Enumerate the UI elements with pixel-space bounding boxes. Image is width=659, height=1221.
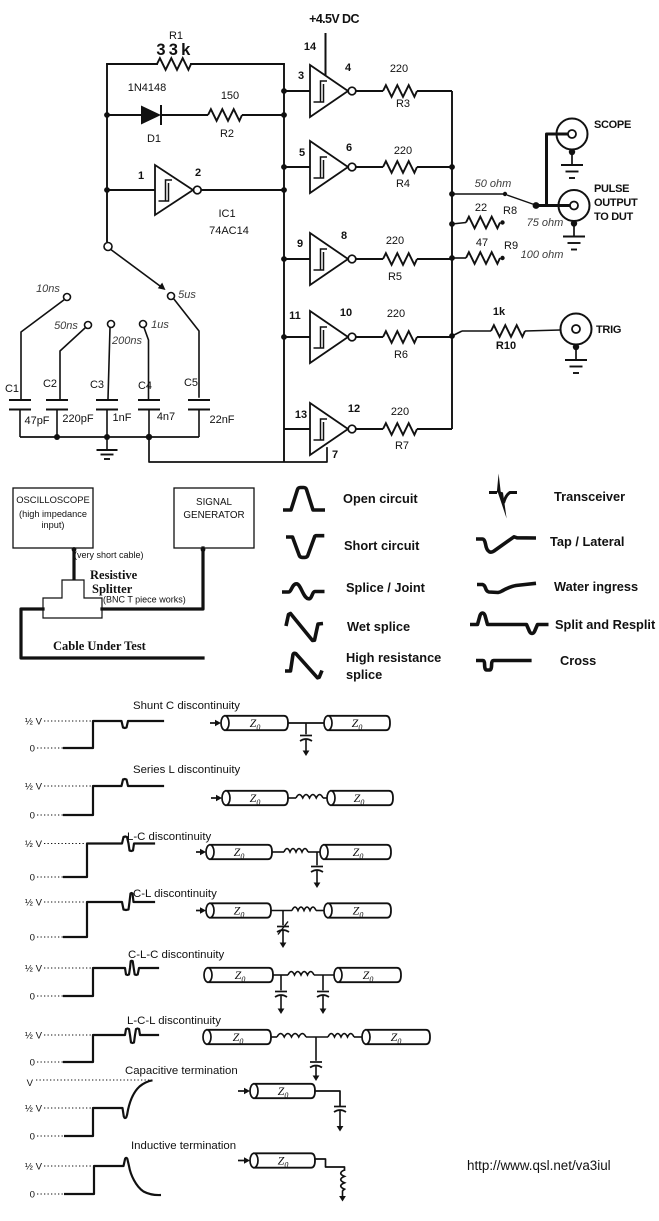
row8 termination inductor [341,1170,345,1191]
rotary switch contact 10ns [64,294,71,301]
BNC connector SCOPE [557,119,588,179]
wire contact 1us to C4 [144,328,149,400]
svg-text:4n7: 4n7 [157,411,175,423]
svg-text:SIGNAL: SIGNAL [196,497,232,508]
dotted level line half-V [44,1034,93,1036]
svg-text:Inductive termination: Inductive termination [131,1140,236,1152]
junction dot output bus y224 [449,221,455,227]
junction dot input bus gate3 [281,88,287,94]
svg-text:22nF: 22nF [209,414,234,426]
svg-text:100 ohm: 100 ohm [521,249,564,261]
junction dot output bus y258 [449,255,455,261]
row1 feed arrow [210,722,217,724]
wire gate output to R3 [356,90,383,92]
row2 series inductor [288,797,296,799]
wire input bus to gate pin 3 [284,90,310,92]
row2 feed arrow [211,797,218,799]
svg-text:(very short cable): (very short cable) [74,550,144,560]
resistor R6 [383,331,417,343]
wire contact 5us to C5 [174,299,200,398]
row4 series inductor [292,907,316,910]
row6 coax right Z0 [366,1030,430,1044]
svg-text:13: 13 [295,409,307,421]
capacitor C4 [138,399,160,401]
dotted level line half-V [44,785,93,787]
legend waveform open circuit [283,488,325,511]
rotary switch contact 5us [168,293,175,300]
svg-text:0: 0 [30,1132,35,1143]
row2 step trace with series L bump [64,779,163,815]
inverter gate IC1 pins 5/6 [310,141,356,193]
capacitor C2 [46,399,68,401]
row5 junction wire left [273,974,288,976]
svg-text:OUTPUT: OUTPUT [594,197,638,209]
dotted level line 0 [37,1193,64,1195]
svg-text:11: 11 [289,310,301,322]
svg-text:220: 220 [387,308,405,320]
svg-text:220: 220 [394,145,412,157]
svg-text:D1: D1 [147,133,161,145]
row3 series inductor [272,851,284,853]
row2 coax left Z0 [226,791,288,805]
svg-text:Cross: Cross [560,653,596,668]
row5 shunt capacitor right [322,975,324,990]
pin 14 supply wire [325,33,327,79]
BNC connector PULSE OUTPUT [559,190,590,250]
inverter gate IC1 pins 11/10 [310,311,356,363]
junction dot output bus y167 [449,164,455,170]
ground under C3 [106,437,108,450]
svg-text:R5: R5 [388,271,402,283]
svg-text:R4: R4 [396,178,410,190]
dotted level line half-V [44,1165,93,1167]
svg-text:input): input) [42,520,65,530]
row5 coax right Z0 [338,968,401,982]
svg-text:6: 6 [346,142,352,154]
wire left rail [106,64,108,242]
row4 feed arrow [196,910,202,912]
svg-text:Wet splice: Wet splice [347,619,410,634]
row5 junction wire right [314,974,334,976]
wire IC1a output to input bus [201,189,284,191]
thick wire common to SCOPE and PULSE OUT [536,204,547,207]
row3 step trace bump then dip [64,837,154,878]
legend waveform water ingress [477,583,536,592]
svg-text:GENERATOR: GENERATOR [183,510,244,521]
rotary switch contact 1us [140,321,147,328]
svg-text:splice: splice [346,667,382,682]
svg-text:(BNC T piece works): (BNC T piece works) [103,595,186,605]
svg-text:47: 47 [476,237,488,249]
svg-text:200ns: 200ns [111,335,142,347]
junction dot left rail / D1 [104,112,110,118]
wire bus to R9 [452,257,466,259]
selector common dot [533,202,540,209]
contact dot 50 ohm [503,192,507,196]
svg-text:3: 3 [298,70,304,82]
resistive splitter outline [43,580,102,618]
junction dot input bus gate11 [281,334,287,340]
thick cable signal generator to splitter [102,548,203,609]
svg-text:Capacitive termination: Capacitive termination [125,1065,238,1077]
row1 shunt capacitor to ground [305,723,307,734]
wire gate output to R5 [356,258,383,260]
wire output bus vertical [451,91,453,429]
svg-text:Split and Resplit: Split and Resplit [555,617,656,632]
wire contact 10ns to C1 [21,300,65,400]
rotary switch pole [104,243,112,251]
row7 dotted V level [36,1079,152,1081]
legend waveform high resistance splice [285,653,322,678]
wire contact 200ns to C3 [108,328,110,400]
svg-text:14: 14 [304,41,317,53]
dotted level line 0 [37,936,64,938]
wire bus to R10 [452,331,462,336]
svg-text:V: V [27,1078,34,1089]
junction dot input bus IC1a out [281,187,287,193]
svg-text:½ V: ½ V [25,839,43,850]
svg-text:50ns: 50ns [54,320,78,332]
svg-text:Short circuit: Short circuit [344,538,420,553]
row7 coax Z0 [254,1084,315,1098]
legend waveform short circuit [286,536,324,558]
svg-text:R3: R3 [396,98,410,110]
svg-text:R2: R2 [220,128,234,140]
svg-text:9: 9 [297,238,303,250]
svg-text:2: 2 [195,167,201,179]
row5 shunt capacitor left [280,975,282,990]
svg-text:0: 0 [30,992,35,1003]
row4 shunt capacitor (slashed) [282,911,284,926]
row5 series inductor [288,972,314,975]
svg-text:1N4148: 1N4148 [128,82,167,94]
junction dot input bus D1 row [281,112,287,118]
svg-text:4: 4 [345,62,352,74]
svg-text:220pF: 220pF [62,413,93,425]
junction dot input bus gate5 [281,164,287,170]
svg-text:R10: R10 [496,340,516,352]
wire contact 50ns to C2 [60,328,86,400]
wire R6 to output bus [417,336,452,338]
inverter gate IC1 pins 13/12 [310,403,356,455]
svg-text:33k: 33k [156,41,193,59]
capacitor C1 [9,399,31,401]
svg-text:L-C-L discontinuity: L-C-L discontinuity [127,1015,221,1027]
rotary switch wiper arrow [111,250,160,287]
svg-text:½ V: ½ V [25,782,43,793]
svg-text:C3: C3 [90,379,104,391]
svg-text:OSCILLOSCOPE: OSCILLOSCOPE [16,494,89,505]
selector wiper wire [507,195,534,205]
svg-text:1nF: 1nF [113,412,132,424]
dotted level line half-V [44,901,87,903]
wire input bus to gate pin 13 [284,428,310,430]
junction dot C4 bus [146,434,152,440]
BNC connector TRIG [561,314,592,374]
svg-text:220: 220 [391,406,409,418]
svg-text:½ V: ½ V [25,1031,43,1042]
wire IC1a input [107,189,155,191]
row1 coax left Z0 [225,716,288,730]
svg-text:22: 22 [475,202,487,214]
row6 series inductor left [271,1036,277,1038]
dotted level line half-V [44,967,93,969]
row8 feed arrow [238,1160,246,1162]
dotted level line 0 [37,814,64,816]
row5 step trace dip spike dip [64,961,158,996]
svg-text:SCOPE: SCOPE [594,119,631,131]
rotary switch contact 200ns [108,321,115,328]
junction dot input bus gate9 [281,256,287,262]
svg-text:Open circuit: Open circuit [343,491,418,506]
diode D1 [141,106,161,125]
svg-text:R8: R8 [503,205,517,217]
junction dot oscilloscope cable [72,547,77,552]
junction dot C2 bus [54,434,60,440]
svg-text:L-C discontinuity: L-C discontinuity [127,831,212,843]
svg-text:C4: C4 [138,380,152,392]
wire caps bus to pin 7 [149,437,327,462]
svg-text:½ V: ½ V [25,1104,43,1115]
svg-text:C5: C5 [184,377,198,389]
row1 junction wire [288,722,324,724]
junction dot left rail / gate input [104,187,110,193]
row7 feed arrow [238,1090,246,1092]
svg-text:8: 8 [341,230,347,242]
wire input bus to gate pin 11 [284,336,310,338]
svg-text:½ V: ½ V [25,964,43,975]
resistor R9 [466,252,500,264]
svg-text:0: 0 [30,873,35,884]
svg-text:http://www.qsl.net/va3iul: http://www.qsl.net/va3iul [467,1158,611,1173]
svg-text:Shunt C discontinuity: Shunt C discontinuity [133,700,240,712]
junction dot signal generator cable [201,547,206,552]
svg-text:High resistance: High resistance [346,650,441,665]
svg-text:½ V: ½ V [25,717,43,728]
wire gate output to R4 [356,166,383,168]
row4 coax right Z0 [328,903,391,917]
thick cable under test [21,609,203,658]
signal generator box [174,488,254,548]
svg-text:220: 220 [390,63,408,75]
legend waveform tap/lateral [476,537,536,552]
contact dot 100 ohm (R9 end) [500,256,504,260]
wire R5 to output bus [417,258,452,260]
wire input bus vertical [283,64,285,462]
row6 step trace spike dip spike [64,1029,158,1063]
resistor R3 [383,85,417,97]
wire overlay into PULSE center [536,204,571,207]
row3 coax left Z0 [210,845,272,859]
resistor R5 [383,253,417,265]
resistor R8 [466,217,500,229]
resistor R7 [383,423,417,435]
legend waveform wet splice [286,614,323,641]
row3 feed arrow [196,851,202,853]
wire R4 to output bus [417,166,452,168]
row6 series inductor right [328,1034,354,1037]
row4 junction wire [271,910,292,912]
row6 coax left Z0 [207,1030,271,1044]
svg-text:TO DUT: TO DUT [594,211,634,223]
svg-text:1us: 1us [151,319,169,331]
dotted level line 0 [37,1135,64,1137]
svg-text:10: 10 [340,307,352,319]
svg-text:R7: R7 [395,440,409,452]
row3 coax right Z0 [324,845,391,859]
dotted level line half-V [44,843,87,845]
dotted level line 0 [37,1061,64,1063]
svg-text:Series L discontinuity: Series L discontinuity [133,764,241,776]
dotted level line 0 [37,995,64,997]
row1 coax right Z0 [328,716,390,730]
svg-text:0: 0 [30,1190,35,1201]
row5 coax left Z0 [208,968,273,982]
svg-text:5us: 5us [178,289,196,301]
junction dot output bus y194 [449,191,455,197]
svg-text:7: 7 [332,449,338,461]
resistor R4 [383,161,417,173]
legend waveform split and resplit [470,613,549,634]
row8 coax Z0 [254,1153,315,1167]
svg-text:C-L-C discontinuity: C-L-C discontinuity [128,949,225,961]
legend waveform transceiver [489,491,497,494]
capacitor C3 [96,399,118,401]
row3 shunt capacitor [316,852,318,865]
wire input bus to gate pin 5 [284,166,310,168]
svg-text:12: 12 [348,403,360,415]
svg-text:C1: C1 [5,383,19,395]
wire overlay into SCOPE center [547,133,569,136]
svg-text:74AC14: 74AC14 [209,225,249,237]
wire D1/R2 row [107,114,141,116]
capacitor C5 [188,399,210,401]
row4 coax left Z0 [210,903,271,917]
oscilloscope box [13,488,93,548]
inverter gate IC1 pins 3/4 [310,65,356,117]
wire R10 to TRIG [525,330,560,331]
wire capacitor ground bus [20,436,199,438]
wire bus to R8 [452,223,466,225]
svg-text:150: 150 [221,90,239,102]
svg-text:IC1: IC1 [218,208,235,220]
svg-text:0: 0 [30,1058,35,1069]
wire R3 to output bus [417,90,452,92]
dotted level line 0 [37,747,64,749]
svg-text:½ V: ½ V [25,1162,43,1173]
svg-text:1k: 1k [493,306,506,318]
wire bus to 50 ohm contact [452,193,503,195]
op-amp style inverter IC1 gate A pins 1-2 [155,165,193,215]
svg-text:Tap / Lateral: Tap / Lateral [550,534,624,549]
junction dot C3 bus [104,434,110,440]
wire R7 to output bus [417,428,452,430]
row7 wire to termination cap [315,1091,340,1105]
dotted level line half-V [44,720,93,722]
resistor R2 [208,109,242,121]
wire input bus to gate pin 9 [284,258,310,260]
svg-text:Resistive: Resistive [90,568,138,582]
svg-text:(high impedance: (high impedance [19,509,87,519]
svg-text:10ns: 10ns [36,283,60,295]
dotted level line 0 [37,876,64,878]
svg-text:Cable Under Test: Cable Under Test [53,639,147,653]
svg-text:C-L discontinuity: C-L discontinuity [133,888,217,900]
rotary switch contact 50ns [85,322,92,329]
svg-text:TRIG: TRIG [596,324,621,336]
svg-text:0: 0 [30,744,35,755]
svg-text:220: 220 [386,235,404,247]
legend waveform cross [476,661,532,671]
svg-text:Water ingress: Water ingress [554,579,638,594]
contact dot 75 ohm (R8 end) [500,220,504,224]
dotted level line half-V [44,1107,93,1109]
svg-text:47pF: 47pF [24,415,49,427]
row8 step trace with inductive spike decay [64,1158,161,1195]
svg-text:0: 0 [30,933,35,944]
wire top feedback from left rail to input bus [107,63,157,65]
wire gate output to R6 [356,336,383,338]
svg-text:50 ohm: 50 ohm [475,178,512,190]
svg-text:5: 5 [299,147,305,159]
row8 wire to termination inductor [315,1159,345,1170]
svg-text:C2: C2 [43,378,57,390]
row7 step trace with capacitive rise [64,1080,153,1136]
resistor R1 [157,58,191,70]
row4 step trace dip then spike [64,893,154,937]
row2 coax right Z0 [331,791,393,805]
svg-text:R9: R9 [504,240,518,252]
svg-text:+4.5V DC: +4.5V DC [309,12,359,26]
svg-text:Splice / Joint: Splice / Joint [346,580,426,595]
svg-text:R6: R6 [394,349,408,361]
svg-text:½ V: ½ V [25,898,43,909]
row1 step trace with shunt C dip [64,721,163,748]
svg-text:1: 1 [138,170,144,182]
svg-text:Transceiver: Transceiver [554,489,625,504]
svg-text:PULSE: PULSE [594,183,629,195]
row7 termination capacitor [334,1106,346,1108]
inverter gate IC1 pins 9/8 [310,233,356,285]
thick cable oscilloscope to splitter [72,548,75,581]
resistor R10 [491,325,525,337]
svg-text:0: 0 [30,811,35,822]
legend waveform splice/joint [282,584,325,599]
wire gate output to R7 [356,428,383,430]
svg-text:75 ohm: 75 ohm [527,217,564,229]
row6 shunt capacitor [315,1037,317,1061]
junction dot output bus y336 [449,333,455,339]
